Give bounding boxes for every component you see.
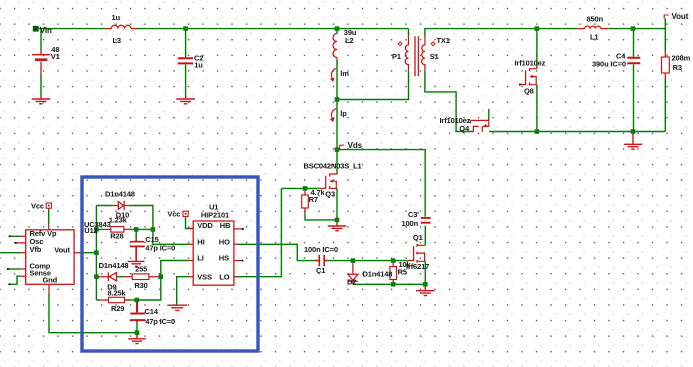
- mosfet Q3: [319, 174, 337, 188]
- wire LO riser to gate row: [238, 188, 281, 276]
- wire U12 sense step: [10, 276, 21, 284]
- svg-text:VSS: VSS: [197, 272, 212, 281]
- transformer TX1 primary winding P1: [405, 37, 408, 71]
- junction C2 top: [183, 26, 188, 31]
- wire D9 R30 row: [117, 276, 124, 278]
- svg-text:Gnd: Gnd: [43, 276, 58, 285]
- svg-text:U12: U12: [84, 226, 97, 235]
- pin end dot Sense: [8, 283, 10, 285]
- op-amp U12 UC3843 block body: [26, 230, 74, 284]
- resistor R3 body: [662, 57, 670, 73]
- wire R7 gate row: [281, 187, 319, 189]
- resistor R29 body: [109, 297, 125, 302]
- wire Vds node right: [337, 150, 425, 217]
- svg-text:Vcc: Vcc: [167, 209, 180, 218]
- svg-text:LO: LO: [219, 272, 229, 281]
- resistor R7 leads: [304, 188, 306, 213]
- capacitor C3': [421, 218, 431, 223]
- wire U12 comp pin: [8, 268, 20, 270]
- ground under VSS: [167, 305, 187, 310]
- transformer S1 polarity dot: [431, 42, 435, 46]
- pin end dot Osc: [15, 242, 17, 244]
- svg-text:R29: R29: [111, 304, 124, 313]
- wire V1 bottom to ground: [40, 74, 42, 96]
- wire U12 gnd down: [49, 294, 137, 333]
- wire Q3 source: [336, 188, 338, 220]
- resistor R7 body: [302, 195, 309, 208]
- wire VSS to ground: [177, 277, 189, 305]
- capacitor C14: [130, 300, 145, 322]
- wire primary bottom: [337, 71, 409, 100]
- junction Vds node: [335, 147, 340, 152]
- wire R29 left vertical lead: [96, 299, 99, 301]
- svg-text:C1: C1: [316, 266, 325, 275]
- junction R7 top: [303, 186, 308, 191]
- resistor R30 leads: [123, 276, 160, 278]
- svg-text:HIP2101: HIP2101: [201, 210, 229, 219]
- current arrow lm: [332, 68, 337, 80]
- svg-text:P1: P1: [392, 52, 401, 61]
- transformer core: [415, 36, 418, 76]
- node Vin marker square: [33, 26, 39, 32]
- svg-text:Vout: Vout: [672, 12, 689, 21]
- svg-text:S1: S1: [430, 52, 439, 61]
- wire C1 to D2 node: [328, 260, 407, 262]
- svg-text:C14: C14: [145, 307, 159, 316]
- wire top rail left: [38, 28, 105, 30]
- resistor R30 body: [132, 274, 149, 280]
- ground under C14: [128, 333, 146, 344]
- inductor L3: [105, 25, 137, 28]
- Vds pin hook: [340, 145, 345, 149]
- pin end dot Comp: [7, 268, 9, 270]
- pin end dot HS: [242, 260, 244, 262]
- wire C15 stem: [135, 229, 137, 240]
- Vcc pin square right: [183, 211, 188, 216]
- ground under C4: [624, 132, 643, 150]
- wire R3 branch: [664, 29, 666, 132]
- svg-text:L3: L3: [113, 36, 121, 45]
- junction R30 right: [159, 274, 164, 279]
- wire C2 branch: [185, 29, 187, 96]
- junction C4 top: [631, 26, 636, 31]
- svg-text:100n IC=0: 100n IC=0: [304, 245, 338, 254]
- wire R29 right lead: [126, 299, 136, 301]
- wire R30 down riser: [137, 277, 161, 300]
- svg-text:R7: R7: [309, 195, 318, 204]
- svg-text:VDD: VDD: [197, 221, 213, 230]
- ground under V1: [32, 96, 51, 104]
- wire C14 stem lower: [136, 322, 138, 333]
- diode D10: [112, 201, 129, 210]
- svg-text:850n: 850n: [587, 15, 604, 24]
- op-amp U1 HIP2101 block body: [193, 221, 234, 285]
- svg-text:R5: R5: [398, 268, 407, 277]
- svg-text:D1n4148: D1n4148: [105, 189, 135, 198]
- junction Q8 top: [535, 26, 540, 31]
- junction C15 top: [134, 227, 139, 232]
- Vcc pin square left: [46, 203, 51, 208]
- wire R28 row: [96, 228, 152, 230]
- wire secondary top rail: [425, 29, 665, 37]
- svg-text:Vfb: Vfb: [30, 245, 42, 254]
- current arrow lp: [332, 109, 337, 121]
- resistor R28 body: [111, 227, 124, 233]
- svg-text:lm: lm: [340, 69, 349, 78]
- Vcc square inner dot right: [185, 213, 187, 215]
- wire Q3 drain: [336, 150, 338, 174]
- capacitor C1: [316, 255, 328, 266]
- svg-text:Irf6217: Irf6217: [406, 262, 429, 271]
- junction U12 Vout: [94, 250, 99, 255]
- resistor R5 body: [390, 267, 397, 280]
- wire D10 top row: [96, 206, 152, 230]
- ground under Q1: [416, 284, 435, 295]
- wire low bottom rail: [353, 283, 425, 285]
- wire R7 bottom: [305, 214, 337, 220]
- junction R5 top: [391, 258, 396, 263]
- junction C4 bottom: [631, 129, 636, 134]
- wire Q4 gate stub: [488, 109, 490, 120]
- capacitor C2: [178, 58, 193, 63]
- svg-text:D1n4148: D1n4148: [363, 269, 393, 278]
- svg-text:Vout: Vout: [54, 246, 70, 255]
- capacitor C4: [627, 58, 640, 64]
- resistor R28 leads: [105, 228, 129, 230]
- wire HI row: [153, 229, 189, 244]
- svg-text:L2: L2: [345, 36, 353, 45]
- wire U12 vfb pin: [0, 252, 21, 254]
- junction C14 bottom: [135, 330, 140, 335]
- svg-text:47p IC=0: 47p IC=0: [145, 317, 175, 326]
- transformer P1 polarity dot: [398, 42, 402, 46]
- wire bottom rail: [489, 131, 665, 133]
- svg-text:390u IC=0: 390u IC=0: [592, 60, 626, 69]
- junction Q8 bottom: [535, 129, 540, 134]
- Vout pin hook: [664, 15, 668, 19]
- wire U12 Vout row: [80, 252, 97, 254]
- svg-text:LI: LI: [197, 254, 203, 263]
- svg-text:1.23k: 1.23k: [109, 215, 128, 224]
- U12 pin stubs: [16, 224, 79, 294]
- battery V1: [32, 51, 50, 75]
- wire LO stub: [234, 276, 238, 278]
- wire primary top drop: [408, 29, 410, 37]
- svg-text:Q8: Q8: [524, 86, 534, 95]
- junction D10 right: [151, 227, 156, 232]
- wire L2 spine: [336, 29, 338, 150]
- svg-text:Vin: Vin: [40, 26, 52, 35]
- wire V1 top: [40, 29, 42, 51]
- svg-text:HS: HS: [219, 254, 229, 263]
- wire C4 branch: [633, 29, 635, 132]
- svg-text:1u: 1u: [194, 61, 203, 70]
- resistor R29 leads: [98, 299, 130, 301]
- ground under C15: [128, 261, 145, 266]
- svg-text:HI: HI: [197, 237, 204, 246]
- wire Q8 drain-source: [536, 29, 538, 132]
- inductor L1: [577, 26, 608, 29]
- wire Q1 drain: [424, 226, 426, 246]
- svg-text:208m: 208m: [672, 53, 691, 62]
- svg-text:Vcc: Vcc: [31, 202, 44, 211]
- mosfet Q1: [407, 245, 425, 261]
- boundary blue box: [82, 177, 258, 351]
- svg-text:R30: R30: [134, 281, 147, 290]
- svg-text:R28: R28: [110, 231, 123, 240]
- resistor R5 leads: [392, 261, 394, 285]
- svg-text:D1n4148: D1n4148: [99, 261, 129, 270]
- svg-text:1u: 1u: [112, 13, 121, 22]
- capacitor C15: [130, 240, 145, 261]
- junction primary bottom: [335, 97, 340, 102]
- junction R28 left: [94, 227, 99, 232]
- junction L2 top: [335, 26, 340, 31]
- svg-text:Q3: Q3: [325, 189, 335, 198]
- junction R5 bottom: [391, 282, 396, 287]
- wire LI riser: [161, 261, 189, 277]
- pin end dot Q8 gate: [519, 84, 521, 86]
- ground under Q3: [328, 220, 347, 231]
- junction Q3 source: [335, 218, 340, 223]
- svg-text:47p IC=0: 47p IC=0: [145, 243, 175, 252]
- svg-text:Irf1010ez: Irf1010ez: [515, 58, 546, 67]
- svg-text:255: 255: [135, 264, 147, 273]
- wire top rail mid: [137, 28, 409, 30]
- junction D9 left: [94, 274, 99, 279]
- wire VDD from Vcc: [186, 216, 194, 228]
- transformer secondary winding S1: [422, 37, 425, 71]
- ground under C2: [176, 96, 195, 104]
- wire U12 ref pin: [10, 235, 21, 237]
- svg-text:Q1: Q1: [413, 233, 423, 242]
- svg-text:R3: R3: [673, 63, 682, 72]
- svg-text:Q4: Q4: [459, 124, 470, 133]
- wire secondary bottom: [425, 71, 473, 132]
- wire Vout stub: [664, 19, 666, 29]
- pin end dot Ref: [9, 235, 11, 237]
- svg-text:HO: HO: [219, 237, 230, 246]
- svg-text:L1: L1: [590, 33, 598, 42]
- svg-text:100n: 100n: [402, 219, 419, 228]
- inductor L2: [333, 34, 337, 61]
- Vcc square inner dot left: [48, 205, 50, 207]
- svg-text:8.25k: 8.25k: [108, 288, 127, 297]
- svg-text:HB: HB: [220, 221, 231, 230]
- junction Q1 source rail: [423, 282, 428, 287]
- svg-text:V1: V1: [51, 52, 60, 61]
- wire HO riser: [238, 244, 316, 260]
- resistor R3 leads: [664, 52, 666, 78]
- wire Vcc left drop: [48, 208, 50, 224]
- svg-text:D2: D2: [347, 278, 356, 287]
- wire Q1 source: [424, 261, 426, 284]
- U1 pin stubs: [189, 229, 243, 277]
- svg-text:lp: lp: [340, 109, 347, 118]
- wire D10 left vertical: [95, 206, 97, 301]
- pin end dot HB: [242, 228, 244, 230]
- junction D2 top: [351, 258, 356, 263]
- svg-text:Vds: Vds: [348, 141, 363, 150]
- diode D9: [96, 272, 117, 281]
- svg-text:BSC042N03S_L1: BSC042N03S_L1: [304, 161, 362, 170]
- junction C14 top: [134, 298, 139, 303]
- svg-text:TX1: TX1: [437, 36, 450, 45]
- mosfet Q4: [471, 120, 489, 131]
- diode D2: [348, 261, 358, 284]
- mosfet Q8: [520, 69, 537, 85]
